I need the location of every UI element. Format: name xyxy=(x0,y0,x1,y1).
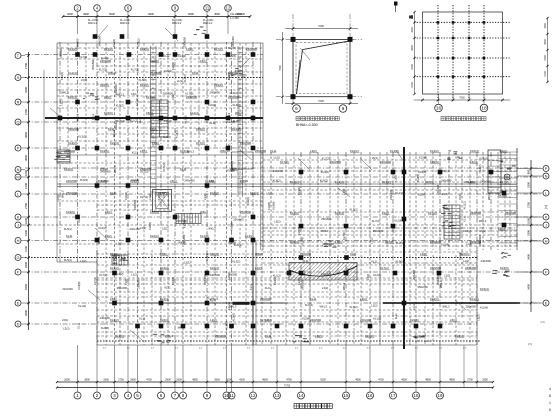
dense detail cluster xyxy=(54,27,516,344)
svg-text:L1(2): L1(2) xyxy=(466,242,472,246)
svg-text:2700: 2700 xyxy=(467,379,473,382)
secondary beam line x=505 xyxy=(504,152,506,250)
svg-text:KL2(4): KL2(4) xyxy=(64,167,73,171)
secondary beam line y=96 xyxy=(57,95,263,97)
column xyxy=(159,146,164,151)
svg-text:240x500: 240x500 xyxy=(62,287,73,291)
svg-text:L3(2): L3(2) xyxy=(322,286,328,290)
svg-text:KL9(6): KL9(6) xyxy=(410,318,419,322)
bottom axis circle 12 xyxy=(250,392,257,399)
svg-text:14: 14 xyxy=(298,393,304,398)
column xyxy=(402,217,407,222)
svg-text:L3(2): L3(2) xyxy=(444,273,450,277)
svg-text:KL5(4): KL5(4) xyxy=(139,78,147,82)
svg-text:3900: 3900 xyxy=(214,379,220,382)
leader line xyxy=(396,150,404,162)
column xyxy=(75,52,80,57)
column xyxy=(173,215,178,220)
svg-text:1800: 1800 xyxy=(130,379,136,382)
right axis circle L xyxy=(543,190,549,196)
detail1 left dimension xyxy=(282,32,284,104)
left axis circle H xyxy=(15,238,21,244)
left block east wall inner xyxy=(260,43,262,250)
svg-text:WKL3: WKL3 xyxy=(165,334,173,338)
svg-text:KL7(2): KL7(2) xyxy=(112,39,116,47)
leader line xyxy=(298,158,310,170)
svg-text:KL11: KL11 xyxy=(110,191,117,195)
svg-text:16: 16 xyxy=(367,393,373,398)
svg-text:2600: 2600 xyxy=(67,12,73,16)
svg-text:KL9(6): KL9(6) xyxy=(205,253,209,261)
column xyxy=(112,301,117,306)
svg-text:KL1(2): KL1(2) xyxy=(373,316,381,320)
svg-text:L1(2): L1(2) xyxy=(177,79,183,83)
secondary beam line y=72 xyxy=(97,71,263,73)
horizontal grid line y=66 xyxy=(97,65,253,67)
svg-text:250x600: 250x600 xyxy=(233,218,244,222)
right axis stem y=303 xyxy=(517,302,543,304)
vertical grid line x=346 xyxy=(345,152,347,345)
svg-text:WKL3: WKL3 xyxy=(208,227,216,231)
column xyxy=(159,324,164,329)
svg-text:2700: 2700 xyxy=(24,109,28,115)
svg-text:KL7(2): KL7(2) xyxy=(99,67,107,71)
svg-text:KL1(2): KL1(2) xyxy=(135,98,139,106)
column xyxy=(489,170,494,175)
right edge ladder rungs xyxy=(499,152,517,243)
svg-text:KL7(2): KL7(2) xyxy=(196,141,205,145)
detail2 pile xyxy=(452,57,455,60)
svg-text:KL11: KL11 xyxy=(249,283,253,290)
bottom axis circle 13 xyxy=(274,392,281,399)
top dimension line xyxy=(63,16,250,18)
svg-text:250x600: 250x600 xyxy=(59,47,63,58)
left block west wall xyxy=(56,43,58,155)
svg-text:KL6(2): KL6(2) xyxy=(233,103,241,107)
svg-text:250x600: 250x600 xyxy=(466,305,477,309)
svg-text:KL1(2): KL1(2) xyxy=(234,243,242,247)
leader line xyxy=(240,58,250,68)
scattered cell labels xyxy=(59,36,492,331)
svg-text:3400: 3400 xyxy=(527,284,531,290)
svg-text:240x500: 240x500 xyxy=(430,240,441,244)
svg-text:L3(2): L3(2) xyxy=(477,314,481,320)
secondary beam line x=191 xyxy=(190,43,192,148)
svg-text:L1(2): L1(2) xyxy=(255,266,262,270)
column xyxy=(229,238,234,243)
svg-text:L3(2): L3(2) xyxy=(420,252,427,256)
svg-text:4500: 4500 xyxy=(214,12,220,16)
svg-text:250x600: 250x600 xyxy=(182,37,186,48)
column xyxy=(299,224,304,229)
secondary beam line x=240 xyxy=(239,43,241,250)
detail2 pile xyxy=(468,57,471,60)
column xyxy=(173,146,178,151)
left axis circle T xyxy=(15,53,21,59)
svg-text:KL7(2): KL7(2) xyxy=(380,266,389,270)
top axis circle 5 xyxy=(204,5,211,12)
svg-text:KL3(2): KL3(2) xyxy=(297,187,301,195)
dark bar label xyxy=(233,302,250,305)
bottom axis stem x=231.5 xyxy=(231,345,233,392)
svg-text:L5(1): L5(1) xyxy=(200,59,207,63)
column xyxy=(95,146,100,151)
svg-text:17: 17 xyxy=(390,393,396,398)
svg-text:KL11: KL11 xyxy=(139,317,146,321)
horizontal grid line y=77.5 xyxy=(25,77,263,79)
right axis circle H xyxy=(543,238,549,244)
svg-text:6: 6 xyxy=(549,408,551,412)
svg-text:16: 16 xyxy=(436,106,442,112)
detail2 pile xyxy=(468,21,471,24)
svg-text:KL9(6): KL9(6) xyxy=(230,222,234,230)
svg-text:KL11: KL11 xyxy=(270,149,277,153)
svg-text:N: N xyxy=(545,173,548,178)
bottom axis circle 3 xyxy=(111,392,118,399)
svg-text:L5(1): L5(1) xyxy=(450,318,457,322)
svg-text:KL11: KL11 xyxy=(77,322,81,329)
secondary beam line y=59 xyxy=(57,58,263,60)
secondary beam line y=263 xyxy=(263,262,477,264)
svg-text:6600: 6600 xyxy=(188,12,194,16)
svg-text:WKL3: WKL3 xyxy=(108,71,116,75)
svg-text:L5(1): L5(1) xyxy=(105,210,112,214)
svg-text:L3(2): L3(2) xyxy=(105,234,112,238)
svg-text:12: 12 xyxy=(226,6,231,11)
bottom axis stem x=440 xyxy=(439,345,441,392)
svg-text:KL7(2): KL7(2) xyxy=(322,156,330,160)
svg-text:KL3(2): KL3(2) xyxy=(350,208,358,212)
solid wall x=256 lower inner xyxy=(255,240,257,345)
column xyxy=(229,324,234,329)
top axis stem x=228 xyxy=(227,11,229,34)
right axis circle N xyxy=(543,173,549,179)
svg-text:240x400: 240x400 xyxy=(321,272,332,276)
svg-text:L1(2): L1(2) xyxy=(131,273,137,277)
svg-text:250x600: 250x600 xyxy=(91,59,95,70)
svg-text:KL9(6): KL9(6) xyxy=(171,62,175,70)
lower east wall xyxy=(476,250,478,345)
svg-text:KL11: KL11 xyxy=(132,151,139,155)
column xyxy=(75,100,80,105)
svg-text:J: J xyxy=(17,222,19,227)
bottom axis stem x=346 xyxy=(345,345,347,392)
svg-text:KL11: KL11 xyxy=(165,285,172,289)
svg-text:18: 18 xyxy=(413,393,419,398)
detail2 pile xyxy=(437,75,440,78)
lower band west wall xyxy=(96,250,98,345)
svg-text:4800: 4800 xyxy=(449,379,455,382)
column xyxy=(181,324,186,329)
svg-text:KL6(2): KL6(2) xyxy=(320,179,328,183)
svg-text:KL7(2): KL7(2) xyxy=(140,195,148,199)
svg-text:L3(2): L3(2) xyxy=(360,297,367,301)
svg-text:WKL3: WKL3 xyxy=(479,219,487,223)
detail2 pile xyxy=(437,37,440,40)
column xyxy=(251,301,256,306)
svg-text:WKL3: WKL3 xyxy=(227,112,231,120)
column xyxy=(402,170,407,175)
column xyxy=(126,100,131,105)
svg-text:KL1(2): KL1(2) xyxy=(232,127,241,131)
svg-text:KL9(6): KL9(6) xyxy=(100,149,109,153)
svg-text:1900: 1900 xyxy=(24,262,28,268)
svg-text:8: 8 xyxy=(549,394,551,398)
svg-text:KL6(2): KL6(2) xyxy=(196,127,205,131)
column xyxy=(344,170,349,175)
top axis circle 3 xyxy=(125,5,132,12)
secondary beam line x=470 xyxy=(469,152,471,318)
svg-text:WKL3: WKL3 xyxy=(240,179,248,183)
svg-text:3900: 3900 xyxy=(83,12,89,16)
secondary beam line y=171 xyxy=(263,170,517,172)
detail1 bottom dimension xyxy=(285,103,358,105)
secondary beam line x=456 xyxy=(455,255,457,345)
secondary beam line x=153 xyxy=(152,43,154,148)
column xyxy=(275,324,280,329)
svg-text:KL7(2): KL7(2) xyxy=(498,193,507,197)
drawing title xyxy=(294,404,332,409)
svg-text:KL6(2): KL6(2) xyxy=(98,226,106,230)
svg-text:KL9(6): KL9(6) xyxy=(101,326,109,330)
secondary beam line x=191 xyxy=(190,155,192,345)
horizontal grid line y=284 xyxy=(97,283,477,285)
svg-text:240x500: 240x500 xyxy=(246,47,257,51)
right axis circle E xyxy=(543,300,549,306)
svg-text:L1(2): L1(2) xyxy=(265,318,271,322)
bottom axis circle 7 xyxy=(172,392,179,399)
vertical grid line x=161 xyxy=(160,42,162,345)
column xyxy=(75,146,80,151)
svg-text:WKL3: WKL3 xyxy=(61,190,65,198)
svg-text:KL6(2): KL6(2) xyxy=(137,38,141,46)
svg-text:4700: 4700 xyxy=(378,379,384,382)
svg-text:KL2(4): KL2(4) xyxy=(396,241,404,245)
svg-text:WKL3: WKL3 xyxy=(342,282,346,290)
svg-text:250x600: 250x600 xyxy=(66,191,77,195)
svg-text:KL1(2): KL1(2) xyxy=(78,304,86,308)
column xyxy=(135,324,140,329)
svg-text:240x400: 240x400 xyxy=(231,36,235,47)
svg-text:L1(2): L1(2) xyxy=(138,117,142,123)
secondary beam line y=182 xyxy=(263,181,517,183)
horizontal grid line y=316 xyxy=(97,315,477,317)
svg-text:WKL3: WKL3 xyxy=(442,305,450,309)
column xyxy=(205,183,210,188)
svg-text:KL7(2): KL7(2) xyxy=(227,144,231,152)
svg-text:KL1(2): KL1(2) xyxy=(273,273,281,277)
svg-text:KL11: KL11 xyxy=(66,234,73,238)
svg-text:KL9(6): KL9(6) xyxy=(267,202,271,210)
svg-text:KL5(4): KL5(4) xyxy=(302,317,310,321)
svg-text:KL1(2): KL1(2) xyxy=(140,83,149,87)
svg-text:KL7(2): KL7(2) xyxy=(350,305,358,309)
secondary beam line x=286 xyxy=(285,152,287,250)
svg-text:G: G xyxy=(16,255,19,260)
horizontal grid line y=134 xyxy=(97,133,253,135)
svg-text:KL5(4): KL5(4) xyxy=(117,119,125,123)
svg-text:KL2(4): KL2(4) xyxy=(101,56,109,60)
bottom axis stem x=301 xyxy=(300,345,302,392)
column xyxy=(251,146,256,151)
svg-text:L5a 240x400: L5a 240x400 xyxy=(230,12,246,16)
small room box xyxy=(232,152,254,169)
secondary beam line x=425 xyxy=(424,152,426,345)
column xyxy=(344,324,349,329)
secondary beam line x=120 xyxy=(119,155,121,250)
svg-text:L3(2): L3(2) xyxy=(150,127,157,131)
svg-text:250x600: 250x600 xyxy=(418,285,429,289)
svg-text:3300: 3300 xyxy=(103,379,109,382)
vertical grid line x=137.5 xyxy=(137,42,139,345)
svg-text:240x500: 240x500 xyxy=(310,318,321,322)
svg-text:KL11: KL11 xyxy=(310,297,317,301)
svg-text:KL3(2): KL3(2) xyxy=(430,149,439,153)
secondary beam line y=292 xyxy=(97,291,477,293)
stair shaft upper xyxy=(151,100,168,137)
secondary beam line x=294 xyxy=(293,152,295,345)
secondary beam line y=336 xyxy=(97,335,477,337)
left axis circle M xyxy=(15,174,21,180)
horizontal grid line y=160 xyxy=(263,159,517,161)
column xyxy=(205,238,210,243)
bottom axis stem x=226.5 xyxy=(226,345,228,392)
svg-text:KL6(2): KL6(2) xyxy=(430,297,439,301)
svg-text:KL2(4): KL2(4) xyxy=(150,210,159,214)
leader line xyxy=(240,150,252,160)
svg-text:L5(1): L5(1) xyxy=(110,297,117,301)
svg-text:L5(1): L5(1) xyxy=(161,192,165,198)
svg-text:KL6(2): KL6(2) xyxy=(273,178,281,182)
svg-text:KL2(4): KL2(4) xyxy=(394,219,402,223)
svg-text:KL11: KL11 xyxy=(462,215,466,222)
column xyxy=(391,324,396,329)
svg-text:2700: 2700 xyxy=(24,203,28,209)
svg-text:KL11: KL11 xyxy=(303,259,310,263)
horizontal grid line y=190 xyxy=(263,189,517,191)
svg-text:1900: 1900 xyxy=(527,182,531,188)
left axis circle N xyxy=(15,167,21,173)
leader line xyxy=(165,28,178,41)
bottom axis stem x=370 xyxy=(369,345,371,392)
column xyxy=(502,191,507,196)
svg-text:KL5(4): KL5(4) xyxy=(290,240,299,244)
horizontal grid line y=332 xyxy=(97,331,477,333)
svg-text:KL6(2): KL6(2) xyxy=(131,178,139,182)
svg-text:L3(2): L3(2) xyxy=(315,334,322,338)
svg-text:KL7(2): KL7(2) xyxy=(500,180,509,184)
svg-text:L5(1): L5(1) xyxy=(162,226,168,230)
svg-text:KL5(4): KL5(4) xyxy=(227,72,231,80)
svg-text:77700: 77700 xyxy=(284,386,291,388)
svg-text:E: E xyxy=(545,300,548,305)
svg-text:BH6A=-0.300: BH6A=-0.300 xyxy=(296,123,318,127)
svg-text:KL9(6): KL9(6) xyxy=(441,242,449,246)
solid beam y=303 left segment xyxy=(109,302,288,304)
leader line xyxy=(205,295,216,305)
svg-text:7200: 7200 xyxy=(318,24,324,28)
bottom axis circle 16 xyxy=(367,392,374,399)
bottom axis circle 11 xyxy=(228,392,235,399)
svg-text:L5(1): L5(1) xyxy=(442,169,448,173)
svg-text:L1(2): L1(2) xyxy=(369,238,373,244)
secondary beam line x=246 xyxy=(245,250,247,345)
svg-text:KL5(4): KL5(4) xyxy=(164,69,172,73)
column xyxy=(502,223,507,228)
column xyxy=(205,301,210,306)
column xyxy=(251,271,256,276)
svg-text:L5(1): L5(1) xyxy=(160,252,167,256)
thick beam line y=118 xyxy=(45,117,263,119)
svg-text:4B20 2-2: 4B20 2-2 xyxy=(203,23,213,25)
vertical grid line x=449 xyxy=(448,152,450,250)
vertical grid line x=128 xyxy=(127,34,129,345)
detail1 caption xyxy=(296,117,339,121)
bottom axis circle 14 xyxy=(298,392,305,399)
svg-text:240x500: 240x500 xyxy=(100,316,111,320)
svg-text:240x500: 240x500 xyxy=(330,160,341,164)
column xyxy=(126,146,131,151)
bottom axis stem x=253 xyxy=(252,345,254,392)
svg-text:KL7(2): KL7(2) xyxy=(214,47,223,51)
svg-text:4: 4 xyxy=(549,387,551,391)
svg-text:S: S xyxy=(17,75,20,80)
svg-text:WKL3: WKL3 xyxy=(113,165,117,173)
svg-text:N: N xyxy=(17,167,20,172)
horizontal grid line y=217 xyxy=(25,216,542,218)
svg-text:240x500: 240x500 xyxy=(301,279,305,290)
bottom axis circle 4 xyxy=(125,392,132,399)
svg-text:2100: 2100 xyxy=(24,183,28,189)
svg-text:WKL3: WKL3 xyxy=(61,91,69,95)
column xyxy=(126,183,131,188)
svg-text:240x500: 240x500 xyxy=(470,211,481,215)
svg-text:KL5(4): KL5(4) xyxy=(480,287,489,291)
svg-text:KL7(2): KL7(2) xyxy=(162,163,166,171)
svg-text:KL9(6): KL9(6) xyxy=(416,174,420,182)
svg-text:KL5(4): KL5(4) xyxy=(297,227,301,235)
right axis stem y=176 xyxy=(517,175,543,177)
left axis circle S xyxy=(15,75,21,81)
svg-text:KL1(2): KL1(2) xyxy=(395,191,403,195)
detail1 corner column SW xyxy=(291,94,296,99)
svg-text:L1(2): L1(2) xyxy=(500,149,507,153)
svg-text:KL6(2): KL6(2) xyxy=(124,192,128,200)
svg-text:KL5(4): KL5(4) xyxy=(160,318,169,322)
secondary beam line y=310 xyxy=(97,309,477,311)
svg-text:KL9(6): KL9(6) xyxy=(157,192,161,200)
svg-text:2700: 2700 xyxy=(527,202,531,208)
svg-text:H: H xyxy=(545,238,548,243)
horizontal grid line y=184 xyxy=(57,183,517,185)
horizontal grid line y=54.5 xyxy=(25,54,263,56)
bottom axis stem x=277 xyxy=(276,345,278,392)
secondary beam line x=168 xyxy=(167,255,169,345)
detail1 corner column SE xyxy=(348,94,353,99)
svg-text:4900: 4900 xyxy=(355,379,361,382)
bottom axis stem x=393 xyxy=(392,345,394,392)
svg-text:KL11: KL11 xyxy=(371,260,378,264)
svg-text:KL7(2): KL7(2) xyxy=(428,211,437,215)
svg-text:3300: 3300 xyxy=(482,379,488,382)
svg-text:KL3(2): KL3(2) xyxy=(183,74,187,82)
svg-text:P: P xyxy=(545,166,548,171)
svg-text:KL5(4): KL5(4) xyxy=(480,306,488,310)
column xyxy=(159,238,164,243)
column xyxy=(159,271,164,276)
svg-text:L1(2): L1(2) xyxy=(382,211,389,215)
svg-text:250x600: 250x600 xyxy=(215,334,226,338)
